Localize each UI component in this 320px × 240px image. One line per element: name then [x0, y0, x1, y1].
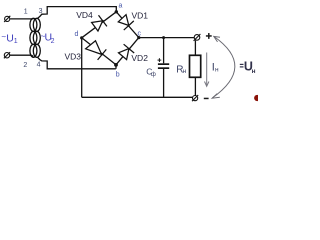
svg-text:VD1: VD1 [132, 11, 149, 21]
svg-text:VD3: VD3 [65, 51, 82, 61]
svg-text:VD2: VD2 [131, 53, 148, 63]
svg-text:1: 1 [14, 38, 18, 45]
svg-text:1: 1 [24, 9, 28, 16]
svg-text:c: c [138, 30, 142, 37]
svg-text:d: d [75, 31, 79, 38]
svg-text:a: a [119, 3, 123, 10]
svg-text:3: 3 [39, 8, 43, 15]
svg-text:2: 2 [51, 38, 55, 45]
svg-text:н: н [252, 68, 256, 75]
svg-text:b: b [116, 71, 120, 78]
svg-text:VD4: VD4 [76, 10, 93, 20]
svg-text:ф: ф [151, 72, 156, 78]
svg-text:2: 2 [23, 62, 27, 69]
svg-text:н: н [183, 68, 187, 75]
svg-text:н: н [215, 66, 219, 73]
svg-text:4: 4 [37, 62, 41, 69]
